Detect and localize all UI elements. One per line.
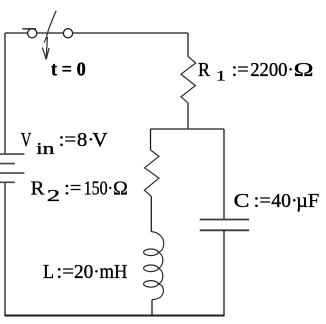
switch bar bbox=[22, 28, 36, 30]
svg-text::=: := bbox=[254, 190, 271, 212]
switch contact circle right bbox=[63, 29, 72, 38]
wire R1 bottom lead bbox=[187, 103, 189, 129]
svg-text:2200·: 2200· bbox=[250, 59, 294, 81]
svg-text:V: V bbox=[21, 129, 32, 151]
svg-text:L: L bbox=[43, 261, 54, 283]
resistor R1 bbox=[181, 57, 196, 103]
switch contact circle left bbox=[28, 29, 37, 38]
svg-text:R: R bbox=[198, 59, 210, 81]
svg-text:2: 2 bbox=[47, 186, 61, 205]
svg-text:R: R bbox=[31, 178, 45, 200]
wire top bbox=[5, 32, 188, 34]
resistor R2 bbox=[144, 150, 159, 196]
inductor L bbox=[144, 232, 164, 300]
svg-text:C: C bbox=[234, 190, 250, 212]
wire capacitor bottom lead bbox=[223, 230, 225, 315]
svg-text::=: := bbox=[56, 261, 74, 283]
battery Vin plate 4 short bbox=[0, 181, 15, 183]
svg-text:150·: 150· bbox=[84, 178, 113, 200]
svg-text:µF: µF bbox=[296, 190, 319, 212]
wire left bbox=[4, 33, 6, 154]
switch blade bbox=[44, 11, 56, 43]
wire R2 to L bbox=[150, 196, 152, 232]
wire left lower bbox=[4, 182, 6, 315]
battery Vin plate 1 long bbox=[0, 153, 24, 155]
wire R1 top lead bbox=[187, 33, 189, 57]
svg-text::=: := bbox=[64, 178, 81, 200]
svg-text:mH: mH bbox=[100, 261, 128, 283]
wire L bottom lead bbox=[151, 300, 153, 316]
svg-text:Ω: Ω bbox=[113, 178, 128, 200]
svg-text:40·: 40· bbox=[271, 190, 297, 212]
svg-text:20·: 20· bbox=[74, 261, 100, 283]
svg-text:1: 1 bbox=[216, 68, 226, 84]
switch arrow bbox=[42, 37, 49, 59]
svg-text:in: in bbox=[36, 139, 54, 158]
wire middle horizontal bbox=[151, 128, 225, 130]
wire bottom bbox=[4, 315, 224, 317]
svg-text:Ω: Ω bbox=[294, 59, 314, 81]
battery Vin plate 2 short bbox=[0, 163, 15, 165]
battery Vin plate 3 long bbox=[0, 172, 24, 174]
wire capacitor top lead bbox=[223, 129, 225, 219]
wire R2 top lead bbox=[150, 129, 152, 150]
svg-text:t = 0: t = 0 bbox=[51, 58, 86, 80]
svg-text:V: V bbox=[92, 129, 108, 151]
svg-text::=: := bbox=[232, 59, 249, 81]
capacitor C bbox=[200, 220, 249, 231]
svg-text::=: := bbox=[59, 129, 77, 151]
